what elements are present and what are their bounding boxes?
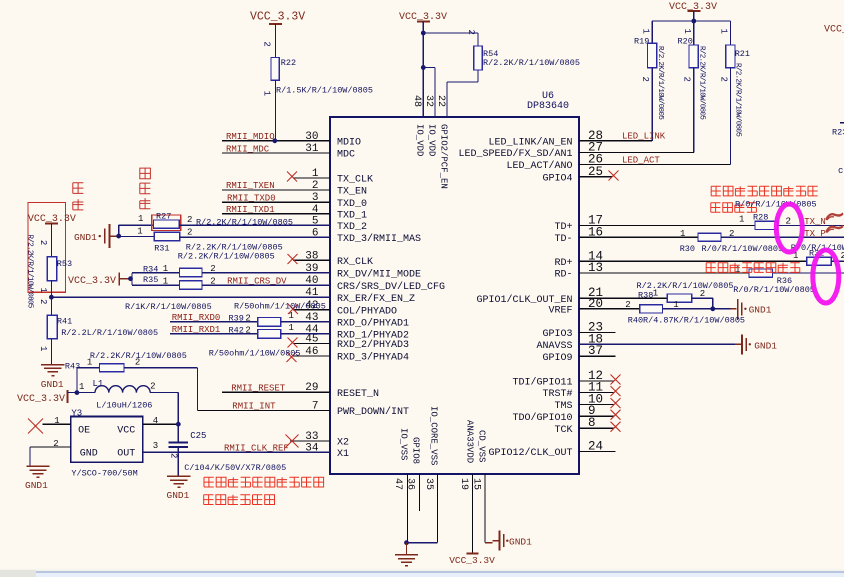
svg-text:1: 1 — [653, 289, 658, 299]
value vertical R/2.2K/R/1/10W/0805 (R19) — [656, 46, 664, 120]
wire junction to L1 — [77, 392, 95, 394]
svg-text:TX_P: TX_P — [804, 229, 826, 239]
net label RMII_RXD0 — [172, 313, 221, 323]
net label RMII_MDIO — [226, 132, 275, 142]
L1 pin2 digit — [150, 381, 155, 391]
stub pin33 X2 — [290, 440, 330, 442]
value R/2.2K/R/1/10W/0805 for R27 — [196, 218, 293, 228]
Y3 pin4 digit — [153, 416, 158, 426]
power VCC_3.3V top-center — [399, 12, 447, 23]
pin 34 X1 name+number — [305, 442, 349, 460]
pin 22 GPIO2/PCF_EN vertical name — [439, 124, 449, 189]
resistor R36 — [749, 269, 773, 277]
svg-text:TXD_0: TXD_0 — [337, 199, 367, 210]
squiggle mark TX_P — [826, 226, 843, 233]
svg-text:R/2.2K/R/1/10W/0805: R/2.2K/R/1/10W/0805 — [178, 252, 275, 262]
svg-text:GND1: GND1 — [509, 537, 532, 548]
power VCC_3.3V mid-left — [68, 273, 119, 288]
inductor L1 label — [93, 379, 104, 389]
pin 9 TDO/GPIO10 name+number — [512, 404, 595, 424]
Y3 pin2 stub — [30, 446, 71, 448]
svg-text:TXD_2: TXD_2 — [337, 222, 367, 233]
wire VCC to junction — [119, 278, 130, 280]
stub pin1 TX_CLK — [293, 177, 330, 179]
ground GND1 below C25 — [167, 476, 191, 501]
R30 pin1 digit — [680, 229, 685, 239]
wire pin20 VREF — [579, 308, 640, 310]
svg-text:VCC_3.3V: VCC_3.3V — [68, 276, 116, 287]
R27 pin1 digit — [138, 214, 143, 224]
wire riser junction to R27 row — [118, 225, 120, 236]
R42 pin2 digit — [245, 325, 250, 335]
annotation 时钟线最好不要走过孔 — [204, 477, 324, 487]
pin 24 GPIO12/CLK_OUT name+number — [488, 440, 603, 460]
svg-text:RXD_2/PHYAD3: RXD_2/PHYAD3 — [337, 339, 409, 351]
R41 pin2 digit — [38, 299, 48, 304]
svg-text:R23: R23 — [832, 128, 844, 138]
stub pin37 — [579, 355, 615, 357]
resistor R19 — [648, 43, 657, 67]
resistor R38 — [667, 294, 691, 302]
svg-text:TMS: TMS — [554, 401, 572, 412]
R19 pin1 digit — [641, 29, 651, 34]
svg-text:2: 2 — [38, 299, 48, 304]
svg-text:2: 2 — [187, 227, 192, 237]
R38 label — [638, 291, 653, 301]
svg-text:GND1: GND1 — [167, 490, 190, 501]
svg-text:2: 2 — [466, 30, 476, 35]
R35 pin2 digit — [210, 276, 215, 286]
wire riser R34/R35 — [131, 273, 133, 285]
R34 label — [143, 264, 158, 274]
wire to R35 — [132, 284, 180, 286]
R41 pin1 digit — [38, 346, 48, 351]
net label RMII_TXD0 — [227, 193, 276, 203]
wire R19 to pin28 row — [651, 68, 653, 141]
svg-text:47: 47 — [392, 478, 403, 490]
wire R38 to VREF junction — [692, 298, 713, 309]
net label RMII_CLK_REF — [224, 444, 289, 454]
resistor R41 — [47, 315, 57, 339]
net label RMII_TXEN — [226, 181, 275, 191]
svg-text:CRS/SRS_DV/LED_CFG: CRS/SRS_DV/LED_CFG — [337, 281, 445, 293]
power VCC_3.3V bottom — [449, 553, 495, 566]
svg-text:RX_CLK: RX_CLK — [337, 257, 373, 268]
resistor R53 — [47, 257, 56, 281]
op-amp/PHY IC U6 DP83640 body — [330, 117, 579, 474]
Y3 pin2 digit — [53, 439, 58, 449]
pin 7 PWR_DOWN/INT name+number — [312, 400, 409, 418]
stub pin24 — [579, 451, 615, 453]
pin 31 MDC name+number — [305, 143, 355, 161]
svg-text:TX_EN: TX_EN — [337, 187, 367, 198]
value vertical R/2.2K/R/1/10W/0805 (R53) — [26, 235, 34, 309]
svg-text:19: 19 — [458, 478, 469, 490]
stub pin11 with no-connect X — [579, 386, 621, 396]
R43 pin1 digit — [87, 358, 92, 368]
net label RMII_RXD1 — [172, 325, 221, 335]
wire pin13 RD- — [579, 272, 749, 274]
wire RMII_CLK_REF pin34 — [143, 451, 330, 453]
svg-text:2: 2 — [640, 77, 650, 82]
wire R27 to pin5 — [179, 224, 330, 226]
R38 pin1 digit — [653, 289, 658, 299]
svg-text:R/2.2L/R/1/10W/0805: R/2.2L/R/1/10W/0805 — [61, 328, 158, 338]
pin 29 RESET_N name+number — [305, 382, 379, 400]
svg-text:RMII_TXD1: RMII_TXD1 — [226, 205, 275, 215]
squiggle mark TX_N — [826, 213, 843, 220]
resistor R30 — [698, 233, 721, 241]
svg-text:Y/SCO-700/50M: Y/SCO-700/50M — [71, 468, 137, 478]
svg-text:1: 1 — [289, 311, 294, 321]
svg-text:R21: R21 — [735, 49, 750, 59]
R30 label — [680, 244, 695, 254]
value Y/SCO-700/50M — [71, 468, 137, 478]
pin 15 CD_VSS vertical name — [477, 430, 487, 462]
R19 pin2 digit — [640, 77, 650, 82]
value R/50ohm/1/10W/0805 (pin42) — [234, 302, 326, 312]
svg-text:GND1: GND1 — [74, 232, 97, 243]
svg-text:1: 1 — [163, 264, 168, 274]
svg-text:R/2.2K/R/1/10W/0805: R/2.2K/R/1/10W/0805 — [698, 46, 706, 120]
R39 pin2 digit — [245, 314, 250, 324]
svg-text:48: 48 — [411, 95, 422, 107]
svg-text:GND1: GND1 — [754, 341, 777, 352]
net label RMII_TXD1 — [226, 205, 275, 215]
stub pin8 with no-connect X — [579, 422, 621, 432]
U6 reference designator — [542, 91, 554, 102]
no-connect X pin45 — [288, 338, 298, 348]
net label RMII_MDC — [226, 144, 270, 154]
svg-text:VCC: VCC — [117, 425, 135, 436]
pin 42 COL/PHYADO name+number — [305, 300, 397, 318]
wire R39 to pin43 — [281, 321, 330, 323]
svg-text:MDC: MDC — [337, 150, 355, 161]
wire to R43 — [77, 367, 100, 369]
svg-text:1: 1 — [137, 227, 142, 237]
R53 pin2 digit — [38, 240, 48, 245]
pin 36 GPIO8 vertical name — [411, 437, 421, 464]
svg-text:2: 2 — [38, 240, 48, 245]
svg-text:GND1: GND1 — [749, 305, 772, 316]
pin 32 number — [423, 95, 434, 107]
resistor R28 — [755, 221, 778, 229]
wire R41 to GND — [50, 339, 52, 365]
svg-text:R34: R34 — [143, 264, 158, 274]
svg-text:32: 32 — [423, 95, 434, 107]
Y3 pin4 stub — [143, 423, 179, 425]
net label RMII_CRS_DV — [227, 277, 287, 287]
Y3 pin1 stub — [42, 423, 71, 425]
junction node bottom GND — [404, 540, 409, 545]
annotation 高速信号线走线要短 — [711, 186, 818, 196]
svg-text:GPIO9: GPIO9 — [542, 353, 572, 364]
svg-text:RMII_TXEN: RMII_TXEN — [226, 181, 275, 191]
svg-text:VCC_: VCC_ — [824, 25, 844, 36]
wire pin21 — [579, 297, 667, 299]
net label RMII_RESET — [231, 383, 286, 393]
svg-text:RMII_RESET: RMII_RESET — [231, 383, 286, 393]
svg-text:Y3: Y3 — [71, 409, 82, 419]
wire R35 to pin40 — [202, 284, 330, 286]
svg-text:R31: R31 — [154, 243, 169, 253]
window bottom strip — [0, 569, 844, 577]
wire RMII_RXD1 row — [170, 333, 258, 335]
svg-text:MDIO: MDIO — [337, 137, 361, 148]
wire bus to R19 — [651, 21, 653, 43]
red highlight box around R27 — [152, 215, 181, 231]
svg-text:TX_CLK: TX_CLK — [337, 175, 373, 186]
R31 pin2 digit — [187, 227, 192, 237]
pin 20 VREF name+number — [548, 297, 603, 317]
svg-text:R39: R39 — [229, 314, 244, 324]
svg-text:2: 2 — [135, 358, 140, 368]
magenta highlight oval 2 — [813, 250, 839, 303]
pin 23 GPIO3 name+number — [542, 321, 603, 341]
annotation 可不要 — [140, 168, 151, 209]
svg-text:1: 1 — [719, 29, 729, 34]
pin 43 RXD_O/PHYAD1 name+number — [305, 312, 409, 330]
wire R42 to pin44 — [281, 333, 330, 335]
svg-text:R/50ohm/1/10W/0805: R/50ohm/1/10W/0805 — [234, 302, 326, 312]
svg-text:TRST#: TRST# — [542, 389, 572, 400]
pin 48 number — [411, 95, 422, 107]
svg-text:IO_VSS: IO_VSS — [399, 428, 409, 460]
R30 pin2 digit — [729, 229, 734, 239]
R53 label — [57, 259, 72, 269]
wire pin16 TD- — [579, 236, 698, 238]
red highlight box around R53 — [28, 203, 66, 293]
pin 15 number — [471, 478, 482, 490]
wire pin18 ANAVSS to GND — [579, 343, 735, 345]
junction node at R54 branch — [421, 31, 426, 36]
wire pin35 down — [437, 474, 439, 543]
R21 pin2 digit — [719, 77, 729, 82]
svg-text:LED_SPEED/FX_SD/AN1: LED_SPEED/FX_SD/AN1 — [458, 148, 572, 160]
R19 label — [634, 36, 649, 46]
tick right edge above R23 — [840, 122, 844, 124]
svg-text:R35: R35 — [143, 275, 158, 285]
svg-text:COL/PHYADO: COL/PHYADO — [337, 305, 397, 317]
pin 14 RD+ name+number — [554, 249, 603, 269]
svg-text:2: 2 — [245, 325, 250, 335]
svg-text:LED_LINK: LED_LINK — [622, 132, 666, 142]
capacitor C25 top lead — [177, 424, 179, 442]
wire pin35 to pin47 join — [407, 542, 438, 544]
wire junction to pin41 — [51, 296, 330, 298]
pin 22 number — [435, 95, 446, 107]
svg-text:OUT: OUT — [117, 449, 135, 460]
value R/50ohm/1/10W/0805 (pin46) — [209, 348, 301, 358]
svg-text:1: 1 — [680, 229, 685, 239]
svg-text:R/2.2K/R/1/10W/0805: R/2.2K/R/1/10W/0805 — [26, 235, 34, 309]
svg-text:2: 2 — [53, 439, 58, 449]
capacitor C25 plates — [168, 442, 188, 447]
wire R43 to pin7 — [124, 368, 197, 411]
resistor R35 — [180, 281, 203, 290]
wire R28 to edge TX_N — [778, 225, 844, 227]
wire pin27 — [579, 151, 694, 153]
svg-text:1: 1 — [163, 276, 168, 286]
svg-text:TDI/GPIO11: TDI/GPIO11 — [512, 377, 572, 389]
value R/4.87K/R/1/10W/0805 (R40) — [643, 316, 745, 326]
wire pin15 right to GND — [485, 542, 492, 544]
svg-text:1: 1 — [262, 91, 272, 96]
stub pin46 — [293, 355, 330, 357]
ground GND1 at VREF — [731, 299, 772, 319]
annotation 不要 — [73, 183, 84, 210]
value R/0/R/1/10W/0805 (R30) — [702, 244, 784, 254]
svg-text:GPIO1/CLK_OUT_EN: GPIO1/CLK_OUT_EN — [476, 294, 572, 306]
resistor R31 — [154, 232, 179, 241]
wire RMII_TXD0 pin3 — [222, 201, 330, 203]
svg-text:R53: R53 — [57, 259, 72, 269]
svg-text:22: 22 — [435, 95, 446, 107]
svg-text:1: 1 — [289, 323, 294, 333]
svg-text:IO_CORE_VSS: IO_CORE_VSS — [429, 406, 439, 465]
svg-text:RMII_RXD1: RMII_RXD1 — [172, 325, 221, 335]
svg-text:LED_ACT: LED_ACT — [622, 156, 660, 166]
wire VCC to R53 — [50, 224, 52, 257]
svg-text:R38: R38 — [638, 291, 653, 301]
R39 pin1 digit — [289, 311, 294, 321]
Y3 GND text — [80, 449, 98, 460]
svg-text:RMII_MDIO: RMII_MDIO — [226, 132, 275, 142]
pin 37 GPIO9 name+number — [542, 344, 603, 364]
svg-text:R/2.2K/R/1/10W/0805: R/2.2K/R/1/10W/0805 — [637, 281, 734, 291]
svg-text:TXD_1: TXD_1 — [337, 210, 367, 221]
svg-text:1: 1 — [38, 288, 48, 293]
wire pin36 down (dangling) — [419, 474, 421, 511]
pin 32 IO_VDD vertical name — [427, 124, 437, 156]
junction node at pin32 branch — [421, 65, 426, 70]
svg-text:c: c — [838, 166, 843, 176]
svg-text:R43: R43 — [65, 362, 80, 372]
resistor R22 — [271, 58, 279, 81]
svg-text:R/0/R/1/10W/0805: R/0/R/1/10W/0805 — [735, 200, 817, 210]
svg-text:2: 2 — [245, 314, 250, 324]
value R/2.2L/R/1/10W/0805 (R41) — [61, 328, 158, 338]
wire junction to R41 — [50, 297, 52, 315]
power VCC_3.3V in red box — [28, 214, 76, 225]
wire branch to R54 top — [423, 33, 478, 46]
svg-text:TXD_3/RMII_MAS: TXD_3/RMII_MAS — [337, 233, 421, 245]
R36 label — [777, 276, 792, 286]
svg-text:2: 2 — [169, 453, 179, 458]
R28 pin2 digit — [785, 216, 791, 227]
svg-text:R/2.2K/R/1/10W/0805: R/2.2K/R/1/10W/0805 — [656, 46, 664, 120]
pin 2 TX_EN name+number — [312, 180, 367, 198]
stub pin42 COL — [293, 309, 330, 311]
svg-text:RMII_RXD0: RMII_RXD0 — [172, 313, 221, 323]
stub pin38 RX_CLK — [293, 259, 330, 261]
svg-text:X1: X1 — [337, 449, 349, 460]
svg-text:4: 4 — [153, 416, 158, 426]
wire junction to R31 — [119, 236, 155, 238]
R31 pin1 digit — [137, 227, 142, 237]
junction node R22/MDIO — [272, 138, 277, 143]
value vertical R/2.2K/R/1/10W/0805 (R21) — [734, 63, 742, 137]
svg-text:1: 1 — [735, 265, 740, 275]
pin 8 TCK name+number — [554, 416, 595, 436]
net label LED_ACT — [622, 156, 660, 166]
L1 pin1 digit — [79, 382, 84, 392]
svg-text:GPIO3: GPIO3 — [542, 329, 572, 340]
svg-text:VCC_3.3V: VCC_3.3V — [449, 555, 495, 566]
svg-text:2: 2 — [150, 381, 155, 391]
value R/0/R/1/10W (R32, cut) — [791, 243, 844, 253]
wire R22 to pin30 — [275, 80, 277, 141]
stub pin23 — [579, 332, 615, 334]
svg-text:VCC_3.3V: VCC_3.3V — [17, 394, 65, 405]
svg-text:R42: R42 — [229, 325, 244, 335]
ground GND1 bottom center — [395, 555, 419, 577]
R20 pin2 digit — [682, 77, 692, 82]
pin 12 TDI/GPIO11 name+number — [512, 369, 603, 389]
pin 35 number — [423, 478, 434, 490]
wire VCC down to pin48 — [422, 22, 424, 118]
wire R36 to edge — [773, 272, 844, 274]
svg-text:1: 1 — [38, 346, 48, 351]
svg-text:1: 1 — [682, 29, 692, 34]
wire pin28 LED_LINK — [579, 140, 652, 142]
ground GND1 at ANAVSS — [735, 334, 777, 354]
net label RMII_INT — [232, 402, 276, 412]
svg-text:IO_VDD: IO_VDD — [415, 124, 425, 156]
svg-text:1: 1 — [54, 416, 59, 426]
svg-text:1: 1 — [138, 214, 143, 224]
value C/104/K/50V/X7R/0805 — [184, 463, 286, 473]
junction node R53/R41 — [49, 295, 54, 300]
pin 19 ANA33VDD vertical name — [465, 420, 475, 463]
stub pin12 with no-connect X — [579, 375, 621, 385]
svg-text:R/2.2K/R/1/10W/0805: R/2.2K/R/1/10W/0805 — [196, 218, 293, 228]
pin 17 TD+ name+number — [554, 214, 603, 234]
Y3 OE text — [78, 425, 90, 436]
pin 26 LED_ACT/ANO name+number — [506, 153, 603, 173]
R32 pin2 digit — [841, 250, 844, 261]
svg-text:R/2.2K/R/1/10W/0805: R/2.2K/R/1/10W/0805 — [483, 58, 580, 68]
value R/0/R/1/10W/0805 (R36) — [733, 285, 815, 295]
wire LED bus horizontal — [652, 20, 730, 22]
wire RMII_RXD0 row — [170, 321, 258, 323]
wire RMII_TXEN pin2 — [222, 189, 330, 191]
svg-text:PWR_DOWN/INT: PWR_DOWN/INT — [337, 406, 409, 418]
R34 pin2 digit — [210, 264, 215, 274]
R27 pin2 digit — [187, 215, 192, 225]
pin 45 RXD_2/PHYAD3 name+number — [305, 334, 409, 352]
pin 25 GPIO4 name+number — [542, 165, 603, 185]
R42 pin1 digit — [289, 323, 294, 333]
svg-text:TDO/GPIO10: TDO/GPIO10 — [512, 412, 572, 424]
R39 label — [229, 314, 244, 324]
wire L1 to C25/Y3 — [150, 393, 178, 425]
ground GND1 below Y3 — [25, 466, 50, 491]
pin 3 TXD_0 name+number — [312, 192, 367, 210]
junction node VCC/L1/R43 — [75, 390, 80, 395]
svg-text:1: 1 — [739, 215, 744, 225]
pin 21 GPIO1/CLK_OUT_EN name+number — [476, 286, 603, 306]
pin 33 X2 name+number — [305, 431, 349, 449]
R53 pin1 digit — [38, 288, 48, 293]
wire VCC down to bus — [693, 11, 695, 21]
wire R31 to pin6 — [180, 236, 330, 238]
R40 label — [628, 316, 643, 326]
pin 48 IO_VDD vertical name — [415, 124, 425, 156]
junction node Y3 VCC/C25 — [176, 422, 181, 427]
R40 pin1 digit — [673, 300, 678, 310]
pin 27 LED_SPEED/FX_SD/AN1 name+number — [458, 140, 603, 160]
